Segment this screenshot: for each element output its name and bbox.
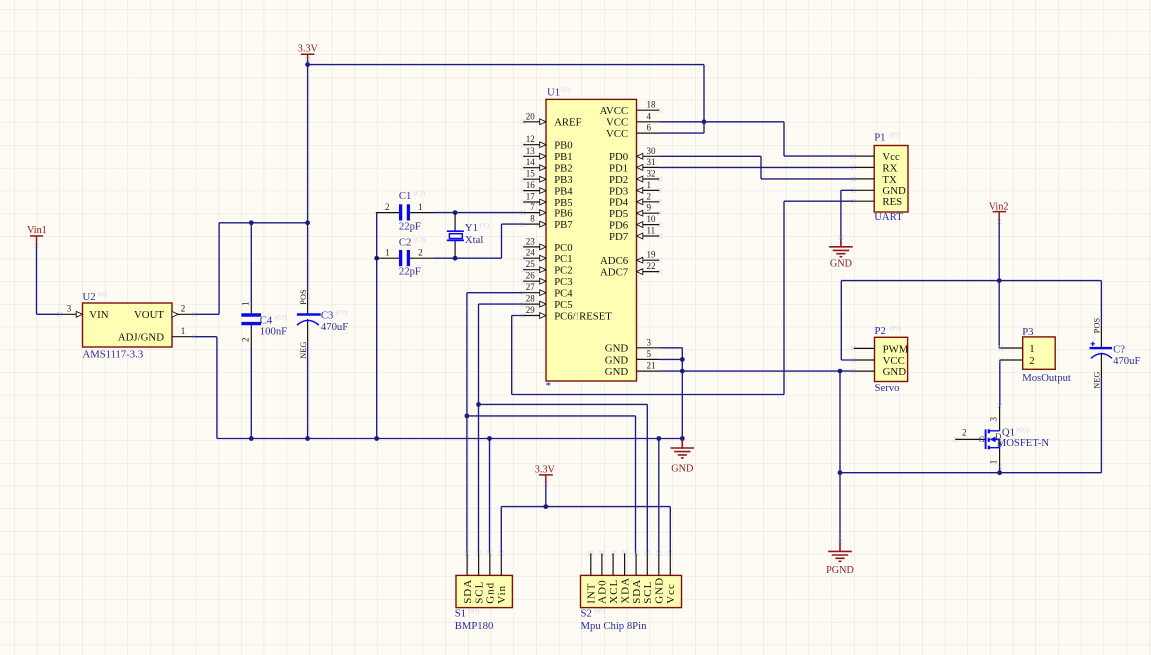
svg-text:29: 29 <box>526 305 536 315</box>
svg-text:2: 2 <box>647 191 652 201</box>
svg-text:GND: GND <box>830 259 852 270</box>
svg-text:Y1: Y1 <box>465 222 478 234</box>
svg-text:3: 3 <box>647 337 652 347</box>
svg-text:PB2: PB2 <box>554 163 572 175</box>
svg-text:PB0: PB0 <box>554 140 572 152</box>
svg-text:10: 10 <box>647 214 657 224</box>
svg-text:S2: S2 <box>581 608 592 620</box>
svg-text:(C?): (C?) <box>336 309 348 316</box>
svg-text:PC5: PC5 <box>554 299 572 311</box>
svg-text:PGND: PGND <box>826 565 854 576</box>
svg-text:20: 20 <box>526 111 536 121</box>
svg-text:1: 1 <box>240 302 250 307</box>
svg-text:32: 32 <box>647 169 656 179</box>
svg-text:17: 17 <box>526 192 536 202</box>
svg-text:(U): (U) <box>98 291 107 298</box>
svg-text:PB7: PB7 <box>554 219 573 231</box>
svg-text:PC0: PC0 <box>554 242 572 254</box>
svg-text:GND: GND <box>605 354 629 366</box>
svg-text:22: 22 <box>647 261 656 271</box>
svg-text:2: 2 <box>418 248 423 258</box>
svg-text:PD7: PD7 <box>609 231 629 243</box>
svg-text:GND: GND <box>605 343 629 355</box>
svg-text:4: 4 <box>647 111 652 121</box>
svg-text:AVCC: AVCC <box>600 105 629 117</box>
svg-text:C2: C2 <box>399 237 411 249</box>
svg-text:C3: C3 <box>321 309 333 321</box>
svg-text:14: 14 <box>526 157 536 167</box>
svg-text:SDA: SDA <box>462 579 474 604</box>
svg-text:ADC6: ADC6 <box>600 255 629 267</box>
svg-text:Vin: Vin <box>496 585 508 604</box>
svg-text:PB1: PB1 <box>554 151 572 163</box>
svg-text:2: 2 <box>962 427 967 437</box>
svg-text:C1: C1 <box>399 190 411 202</box>
svg-text:S: S <box>997 439 1002 449</box>
svg-text:Vin2: Vin2 <box>989 202 1009 213</box>
svg-text:2: 2 <box>240 338 250 343</box>
svg-text:3: 3 <box>67 304 72 314</box>
svg-text:(Y): (Y) <box>480 222 489 229</box>
svg-text:22pF: 22pF <box>399 221 421 233</box>
svg-text:POS: POS <box>1093 317 1102 333</box>
svg-text:MOSFET-N: MOSFET-N <box>997 437 1050 449</box>
svg-text:PD1: PD1 <box>609 162 628 174</box>
svg-text:PD6: PD6 <box>609 220 629 232</box>
svg-text:BMP180: BMP180 <box>455 620 494 632</box>
svg-text:(P?): (P?) <box>890 325 901 332</box>
svg-text:PB4: PB4 <box>554 186 573 198</box>
svg-text:16: 16 <box>526 180 536 190</box>
svg-text:6: 6 <box>647 123 652 133</box>
svg-text:ADJ/GND: ADJ/GND <box>118 332 164 344</box>
svg-text:(S?): (S?) <box>469 608 480 615</box>
svg-text:25: 25 <box>526 259 536 269</box>
svg-text:30: 30 <box>647 146 657 156</box>
svg-text:PD3: PD3 <box>609 185 628 197</box>
svg-text:Vin1: Vin1 <box>27 225 47 236</box>
svg-text:15: 15 <box>526 169 536 179</box>
svg-text:SDA: SDA <box>631 579 643 604</box>
svg-text:Xtal: Xtal <box>465 234 483 246</box>
svg-text:POS: POS <box>299 289 308 305</box>
svg-text:(S?): (S?) <box>595 608 606 615</box>
svg-text:PC4: PC4 <box>554 288 573 300</box>
svg-text:Gnd: Gnd <box>485 582 497 604</box>
svg-text:RES: RES <box>882 196 902 208</box>
svg-text:Servo: Servo <box>875 382 900 394</box>
svg-text:(C?): (C?) <box>414 190 426 197</box>
svg-text:470uF: 470uF <box>321 321 348 333</box>
svg-text:(C?): (C?) <box>414 237 426 244</box>
svg-text:U1: U1 <box>547 87 560 99</box>
svg-text:3: 3 <box>988 417 998 422</box>
svg-text:7: 7 <box>530 202 535 212</box>
svg-text:PD5: PD5 <box>609 208 628 220</box>
svg-text:SCL: SCL <box>642 581 654 604</box>
svg-text:RX: RX <box>882 162 897 174</box>
svg-text:8: 8 <box>530 214 535 224</box>
svg-text:GND: GND <box>654 577 666 604</box>
svg-text:Mpu Chip 8Pin: Mpu Chip 8Pin <box>581 620 648 632</box>
svg-text:(Q?): (Q?) <box>1017 427 1029 434</box>
svg-text:VIN: VIN <box>89 309 108 321</box>
svg-text:PC3: PC3 <box>554 276 572 288</box>
svg-text:1: 1 <box>181 326 186 336</box>
svg-text:C?: C? <box>1113 343 1125 355</box>
svg-text:PD4: PD4 <box>609 197 629 209</box>
svg-text:PC1: PC1 <box>554 253 572 265</box>
svg-text:23: 23 <box>526 236 536 246</box>
svg-text:28: 28 <box>526 294 536 304</box>
svg-text:ADC7: ADC7 <box>600 267 629 279</box>
svg-text:GND: GND <box>671 464 693 475</box>
svg-text:1: 1 <box>647 180 652 190</box>
svg-text:Vcc: Vcc <box>665 583 677 604</box>
svg-text:XCL: XCL <box>608 579 620 604</box>
svg-text:XDA: XDA <box>619 577 631 604</box>
svg-text:470uF: 470uF <box>1113 355 1140 367</box>
svg-text:1: 1 <box>1029 343 1034 355</box>
svg-text:P3: P3 <box>1022 326 1033 338</box>
svg-text:27: 27 <box>526 282 536 292</box>
svg-text:PB6: PB6 <box>554 208 573 220</box>
svg-text:PD2: PD2 <box>609 174 628 186</box>
svg-text:NEG: NEG <box>299 341 308 358</box>
svg-text:PC6/!RESET: PC6/!RESET <box>554 310 612 322</box>
svg-text:C4: C4 <box>260 314 273 326</box>
svg-text:24: 24 <box>526 248 536 258</box>
svg-text:PC2: PC2 <box>554 265 572 277</box>
svg-text:3.3V: 3.3V <box>298 44 319 55</box>
svg-text:AD0: AD0 <box>597 579 609 603</box>
svg-text:U2: U2 <box>83 291 96 303</box>
svg-text:18: 18 <box>647 100 657 110</box>
svg-text:*: * <box>546 380 552 392</box>
svg-text:TX: TX <box>882 174 897 186</box>
svg-text:31: 31 <box>647 157 656 167</box>
svg-text:Vcc: Vcc <box>882 151 900 163</box>
svg-text:UART: UART <box>874 211 903 223</box>
svg-text:AMS1117-3.3: AMS1117-3.3 <box>83 348 144 360</box>
svg-text:(U): (U) <box>561 87 570 94</box>
svg-text:VCC: VCC <box>606 117 628 129</box>
svg-text:NEG: NEG <box>1093 371 1102 388</box>
svg-text:(C?): (C?) <box>275 314 287 321</box>
svg-text:2: 2 <box>1029 355 1034 367</box>
svg-text:P1: P1 <box>874 131 885 143</box>
svg-text:12: 12 <box>526 134 535 144</box>
svg-text:22pF: 22pF <box>399 265 421 277</box>
svg-text:1: 1 <box>385 248 390 258</box>
svg-text:21: 21 <box>647 361 656 371</box>
svg-text:GND: GND <box>883 366 907 378</box>
svg-text:2: 2 <box>385 202 390 212</box>
svg-text:SCL: SCL <box>473 581 485 604</box>
svg-text:PWM: PWM <box>883 343 909 355</box>
svg-text:1: 1 <box>418 202 423 212</box>
svg-text:19: 19 <box>647 250 657 260</box>
svg-text:26: 26 <box>526 271 536 281</box>
svg-text:G: G <box>979 434 985 444</box>
svg-text:13: 13 <box>526 146 536 156</box>
svg-text:9: 9 <box>647 203 652 213</box>
svg-text:AREF: AREF <box>554 117 581 129</box>
svg-text:VOUT: VOUT <box>134 309 164 321</box>
svg-text:11: 11 <box>647 226 656 236</box>
svg-text:1: 1 <box>988 460 998 465</box>
svg-text:2: 2 <box>181 304 186 314</box>
svg-text:P2: P2 <box>875 325 886 337</box>
svg-text:VCC: VCC <box>606 128 628 140</box>
svg-text:100nF: 100nF <box>260 326 287 338</box>
svg-text:GND: GND <box>605 366 629 378</box>
svg-text:S1: S1 <box>455 608 466 620</box>
svg-text:(P?): (P?) <box>890 131 901 138</box>
svg-text:5: 5 <box>647 349 652 359</box>
svg-text:MosOutput: MosOutput <box>1022 372 1071 384</box>
svg-text:3.3V: 3.3V <box>535 465 556 476</box>
svg-text:PB3: PB3 <box>554 174 572 186</box>
